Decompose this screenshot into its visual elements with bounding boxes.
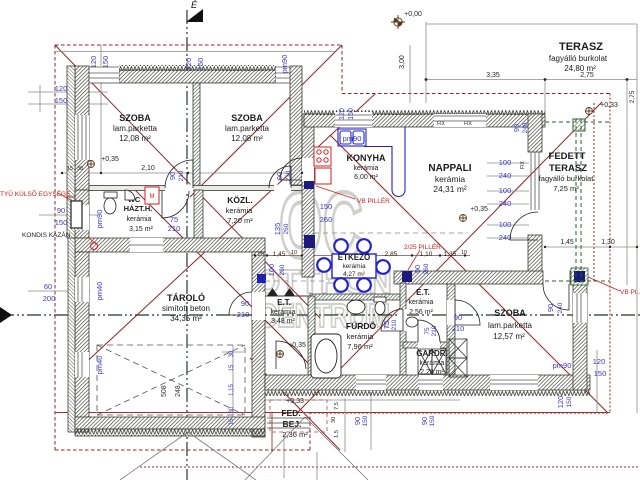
svg-text:VB PILLÉR: VB PILLÉR — [357, 196, 390, 205]
svg-text:150: 150 — [320, 202, 333, 211]
left wall wc block — [75, 190, 89, 238]
furdo right wall — [400, 283, 406, 375]
svg-text:508: 508 — [161, 385, 168, 397]
svg-text:+0,35: +0,35 — [288, 342, 306, 349]
svg-text:M: M — [150, 194, 155, 200]
north arrow — [186, 9, 203, 22]
door arc szoba-right — [543, 284, 569, 310]
watermark — [255, 173, 392, 334]
svg-text:150: 150 — [55, 218, 68, 227]
svg-text:90: 90 — [57, 206, 65, 215]
svg-text:lam.parketta: lam.parketta — [225, 124, 270, 133]
svg-text:75: 75 — [382, 321, 391, 329]
garage dashed rectangle — [97, 345, 245, 415]
svg-text:VB PI...: VB PI... — [620, 289, 640, 296]
svg-text:lam.parketta: lam.parketta — [113, 124, 158, 133]
svg-text:15: 15 — [229, 418, 235, 425]
svg-text:30: 30 — [77, 166, 83, 172]
svg-text:pm90: pm90 — [280, 55, 289, 74]
svg-text:135: 135 — [273, 223, 282, 236]
toilet furdo + basin et — [374, 297, 418, 327]
svg-text:HÁZT.H.: HÁZT.H. — [124, 204, 153, 213]
svg-text:pm40: pm40 — [95, 356, 104, 375]
svg-text:240: 240 — [499, 233, 512, 242]
svg-text:200: 200 — [43, 294, 56, 303]
svg-text:100: 100 — [267, 264, 276, 277]
washbasin furdo — [347, 300, 365, 314]
svg-text:E.T.: E.T. — [277, 298, 291, 307]
svg-text:SZOBA: SZOBA — [494, 308, 526, 318]
tarolo left wall — [75, 252, 89, 432]
svg-text:NAPPALI: NAPPALI — [428, 163, 471, 174]
corner sink wc — [125, 190, 135, 200]
svg-text:150: 150 — [429, 415, 436, 426]
svg-text:120: 120 — [556, 396, 565, 409]
svg-text:pm90: pm90 — [553, 361, 572, 370]
svg-text:150: 150 — [101, 56, 110, 69]
door arc nappali terasz — [510, 212, 538, 240]
svg-text:7,96 m²: 7,96 m² — [347, 342, 373, 351]
red bottom dim line — [55, 412, 610, 414]
toilet wc — [104, 192, 117, 214]
furdo top wall — [310, 294, 400, 300]
svg-text:2,75: 2,75 — [629, 90, 636, 103]
svg-text:12,08 m²: 12,08 m² — [119, 134, 151, 143]
svg-text:75: 75 — [424, 327, 431, 335]
top wall of szoba block — [119, 70, 276, 83]
svg-text:+0,35: +0,35 — [101, 156, 119, 163]
konyha/nappali top wall — [304, 114, 545, 127]
svg-text:2,75: 2,75 — [580, 72, 594, 79]
svg-text:+0,33: +0,33 — [600, 102, 618, 109]
nappali right wall — [528, 114, 542, 152]
svg-text:240: 240 — [522, 122, 529, 133]
door arc szoba1 — [165, 160, 193, 188]
svg-text:FÜRDÕ: FÜRDÕ — [346, 321, 377, 331]
svg-text:7,25 m²: 7,25 m² — [553, 184, 579, 193]
svg-text:210: 210 — [391, 319, 398, 330]
svg-text:KONDIS KAZÁN: KONDIS KAZÁN — [22, 230, 71, 239]
svg-text:kerámia: kerámia — [342, 263, 366, 270]
svg-text:kerámia: kerámia — [271, 309, 296, 316]
svg-text:É: É — [191, 0, 198, 10]
svg-text:1,35: 1,35 — [444, 251, 457, 258]
left exterior wall upper — [75, 66, 89, 190]
dining — [317, 239, 390, 292]
et/gardr partition — [403, 342, 448, 348]
svg-text:2/25 PILLÉR: 2/25 PILLÉR — [404, 242, 441, 251]
svg-text:1,30: 1,30 — [601, 239, 615, 246]
svg-text:kerámia: kerámia — [127, 216, 152, 223]
svg-text:2,10: 2,10 — [141, 165, 155, 172]
svg-text:260: 260 — [320, 215, 333, 224]
svg-text:150: 150 — [362, 415, 369, 426]
door arc konyha — [280, 158, 302, 180]
svg-text:kerámia: kerámia — [226, 206, 254, 215]
bottom extra roof lines — [120, 417, 368, 480]
door arc tarolo — [229, 292, 252, 315]
svg-text:90: 90 — [512, 124, 521, 132]
svg-text:24,31 m²: 24,31 m² — [433, 184, 467, 194]
svg-text:12,08 m²: 12,08 m² — [231, 134, 263, 143]
svg-text:4,27 m²: 4,27 m² — [343, 271, 366, 278]
wall below szoba rooms — [89, 186, 302, 191]
bathtub — [311, 334, 341, 378]
svg-text:15: 15 — [229, 364, 235, 371]
tarolo bottom wall — [75, 417, 265, 429]
svg-text:1,15: 1,15 — [229, 384, 235, 396]
svg-text:fagyálló burkolat: fagyálló burkolat — [549, 54, 608, 63]
door arc szoba2 — [269, 166, 291, 188]
svg-text:248: 248 — [175, 385, 182, 397]
svg-text:+0,35: +0,35 — [470, 206, 488, 213]
right wall of left block — [290, 66, 302, 185]
red annotations — [0, 189, 640, 296]
stove — [314, 147, 331, 184]
svg-text:210: 210 — [237, 310, 250, 319]
svg-text:2,85: 2,85 — [385, 251, 398, 258]
svg-text:1,45: 1,45 — [560, 239, 574, 246]
svg-text:150: 150 — [55, 96, 68, 105]
svg-text:90: 90 — [353, 417, 362, 425]
room labels — [113, 41, 608, 439]
blue dim texts — [43, 55, 607, 438]
svg-text:TÁROLÓ: TÁROLÓ — [167, 292, 205, 303]
kitchen sink + counter — [338, 127, 405, 197]
svg-text:3,15 m²: 3,15 m² — [129, 226, 153, 233]
tarolo right wall — [252, 252, 265, 437]
svg-text:TERASZ: TERASZ — [559, 41, 603, 53]
svg-text:100: 100 — [499, 220, 512, 229]
svg-text:kerámia: kerámia — [347, 332, 375, 341]
wc/kozl partition — [194, 190, 203, 238]
svg-text:pm90: pm90 — [95, 210, 104, 229]
thin dim lines — [28, 22, 637, 413]
svg-text:90: 90 — [275, 172, 284, 180]
svg-text:60: 60 — [44, 282, 52, 291]
svg-text:210: 210 — [178, 170, 185, 181]
svg-text:25: 25 — [258, 252, 265, 258]
svg-text:90: 90 — [420, 417, 429, 425]
svg-text:3,35: 3,35 — [486, 72, 500, 79]
svg-text:100: 100 — [499, 186, 512, 195]
svg-text:12,57 m²: 12,57 m² — [493, 332, 525, 341]
svg-text:100: 100 — [499, 158, 512, 167]
spot markers — [391, 15, 405, 29]
svg-text:fagyálló burkolat: fagyálló burkolat — [539, 174, 595, 183]
svg-text:260: 260 — [283, 223, 290, 234]
svg-text:120: 120 — [593, 357, 606, 366]
bottom wall middle+right — [265, 375, 590, 390]
door arc et-szoba — [455, 300, 480, 325]
svg-text:+0,00: +0,00 — [404, 11, 422, 18]
AC outdoor unit — [71, 201, 82, 228]
svg-text:1,45: 1,45 — [273, 251, 286, 258]
pillars — [304, 181, 314, 189]
svg-text:FIX: FIX — [437, 121, 445, 127]
svg-text:150: 150 — [348, 108, 355, 120]
svg-text:+0,33: +0,33 — [286, 398, 304, 405]
door arc gardrob — [418, 320, 440, 342]
svg-text:150: 150 — [566, 396, 573, 407]
svg-text:30: 30 — [229, 350, 235, 357]
svg-text:150: 150 — [196, 58, 205, 71]
svg-text:kerámia: kerámia — [354, 165, 379, 172]
svg-text:120: 120 — [339, 108, 346, 120]
svg-text:pm90: pm90 — [343, 134, 362, 143]
svg-text:kerámia: kerámia — [435, 174, 466, 184]
svg-text:KONYHA: KONYHA — [346, 153, 386, 163]
svg-text:210: 210 — [168, 224, 181, 233]
svg-text:ÉTKEZÕ: ÉTKEZÕ — [338, 253, 370, 262]
svg-text:120: 120 — [184, 58, 193, 71]
svg-text:34,35 m²: 34,35 m² — [170, 314, 202, 323]
door arc wc — [162, 191, 189, 218]
konyha left wall — [302, 114, 314, 277]
svg-text:3,48 m²: 3,48 m² — [271, 318, 295, 325]
svg-text:120: 120 — [89, 56, 98, 69]
small black dim texts — [67, 11, 636, 405]
boiler — [91, 243, 98, 250]
band wc bottom / tarolo top — [75, 238, 265, 252]
svg-text:FED.: FED. — [281, 408, 300, 418]
wardrobes — [418, 339, 467, 377]
szoba-right right wall — [573, 284, 587, 390]
svg-text:30: 30 — [331, 417, 337, 423]
partition szoba1/szoba2 — [193, 83, 200, 186]
svg-text:simított beton: simított beton — [162, 304, 210, 313]
svg-text:7,20 m²: 7,20 m² — [227, 216, 253, 225]
svg-text:E.T.: E.T. — [416, 288, 430, 297]
svg-text:2,36 m²: 2,36 m² — [282, 430, 308, 439]
dashed dividers — [314, 232, 468, 234]
svg-text:lam.parketta: lam.parketta — [488, 321, 533, 330]
svg-text:SZOBA: SZOBA — [231, 113, 263, 123]
svg-text:kerámia: kerámia — [409, 299, 434, 306]
svg-text:260: 260 — [279, 264, 286, 275]
svg-text:260: 260 — [423, 263, 430, 274]
svg-text:15: 15 — [67, 166, 73, 172]
wall nappali/szoba-right — [394, 271, 543, 284]
et/furdo partition — [308, 296, 315, 375]
svg-text:120: 120 — [55, 84, 68, 93]
svg-text:KÖZL.: KÖZL. — [227, 195, 253, 205]
svg-text:SZOBA: SZOBA — [119, 113, 151, 123]
svg-text:pm40: pm40 — [95, 282, 104, 301]
washing machine M — [145, 187, 159, 204]
door arc furdo — [381, 309, 403, 331]
roof ridge diagonals — [55, 45, 608, 450]
svg-text:240: 240 — [499, 199, 512, 208]
svg-text:90: 90 — [413, 265, 422, 273]
svg-text:1,5: 1,5 — [334, 430, 340, 438]
svg-text:90: 90 — [241, 299, 249, 308]
svg-text:TYŪ KÜLSÕ EGYSÉGE: TYŪ KÜLSÕ EGYSÉGE — [0, 189, 71, 198]
svg-text:6,00 m²: 6,00 m² — [354, 174, 378, 181]
svg-text:7,5: 7,5 — [334, 402, 340, 410]
svg-text:FIX: FIX — [520, 160, 526, 168]
E.T. entry line + posts — [265, 295, 310, 297]
svg-text:240: 240 — [499, 171, 512, 180]
svg-text:FEDETT: FEDETT — [549, 151, 586, 162]
svg-text:FIX: FIX — [464, 121, 472, 127]
wall et/szoba right — [447, 284, 455, 375]
door arc entry — [276, 341, 306, 369]
terrace dashes green — [545, 119, 610, 283]
svg-text:150: 150 — [594, 369, 607, 378]
fed.bej steps — [267, 400, 327, 432]
svg-text:1,10: 1,10 — [420, 251, 433, 258]
svg-text:10: 10 — [291, 250, 297, 256]
svg-text:3,00: 3,00 — [399, 55, 406, 69]
svg-text:2,56 m²: 2,56 m² — [409, 309, 433, 316]
